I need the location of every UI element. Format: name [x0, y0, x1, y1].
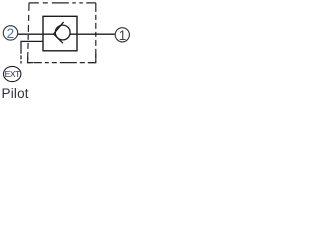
- svg-text:1: 1: [119, 28, 127, 43]
- svg-text:Pilot: Pilot: [2, 86, 29, 101]
- svg-text:EXT: EXT: [5, 69, 21, 79]
- svg-text:2: 2: [7, 26, 15, 41]
